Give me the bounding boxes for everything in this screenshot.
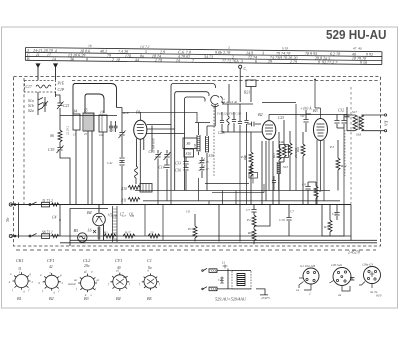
M1 coil in box	[36, 85, 51, 88]
svg-text:C21: C21	[63, 104, 69, 108]
svg-text:529 HU-AU: 529 HU-AU	[326, 28, 387, 42]
socket B1	[13, 272, 31, 290]
svg-text:R14: R14	[340, 164, 347, 168]
svg-text:C1: C1	[147, 258, 152, 263]
wires tube B2 grid area	[222, 122, 262, 132]
svg-text:23: 23	[150, 231, 154, 235]
svg-text:S18: S18	[356, 133, 361, 137]
svg-text:L6: L6	[87, 229, 92, 233]
svg-text:B3: B3	[313, 108, 318, 113]
C33 C36 caps	[183, 157, 188, 191]
top mid text rows	[216, 100, 241, 116]
svg-text:C14: C14	[159, 166, 165, 170]
svg-text:2 79: 2 79	[290, 59, 297, 64]
main bus wires	[11, 204, 352, 206]
mid-bottom components row (C7 P2 R6 C10)	[219, 205, 292, 245]
svg-text:B4: B4	[87, 210, 92, 215]
svg-text:6.2 78: 6.2 78	[330, 51, 340, 56]
svg-text:S1b: S1b	[28, 104, 34, 108]
svg-text:9a: 9a	[148, 266, 152, 270]
svg-text:+ (m) A.: + (m) A.	[300, 107, 312, 111]
svg-text:47⁄4F5: 47⁄4F5	[261, 296, 270, 300]
svg-text:B1: B1	[17, 296, 22, 301]
svg-text:C33: C33	[175, 162, 181, 166]
svg-text:2 18: 2 18	[112, 57, 120, 62]
svg-text:S9: S9	[187, 142, 191, 146]
svg-text:R21: R21	[243, 91, 250, 95]
svg-text:R11: R11	[120, 199, 127, 203]
svg-text:C32: C32	[338, 109, 344, 113]
svg-text:77.72.76A 3: 77.72.76A 3	[222, 58, 243, 63]
svg-text:S10: S10	[186, 152, 192, 156]
svg-text:9 50: 9 50	[360, 60, 367, 65]
svg-text:29a: 29a	[84, 264, 90, 268]
antenna switch column	[28, 99, 34, 113]
svg-text:S6: S6	[50, 134, 54, 138]
second dashed top line	[72, 79, 380, 81]
svg-text:S1a: S1a	[28, 99, 34, 103]
svg-text:22 20 2: 22 20 2	[66, 126, 70, 136]
svg-text:B2: B2	[258, 112, 263, 117]
socket B5	[142, 273, 159, 290]
svg-text:R7: R7	[318, 189, 323, 193]
svg-text:11: 11	[36, 52, 40, 57]
svg-text:14: 14	[176, 58, 180, 63]
svg-text:42: 42	[49, 265, 53, 269]
svg-text:34.73: 34.73	[204, 54, 213, 59]
C14 cap	[164, 162, 169, 191]
svg-text:I1B: I1B	[111, 214, 117, 218]
bandfilter box	[140, 184, 152, 193]
svg-text:170: 170	[125, 53, 131, 58]
svg-text:78: 78	[88, 44, 92, 48]
svg-text:9.6b 2.78: 9.6b 2.78	[215, 50, 230, 55]
C21 cap	[56, 95, 64, 130]
vertical resistor columns under B2/B3	[249, 131, 305, 205]
svg-text:14: 14	[52, 56, 56, 61]
svg-text:1a 4a 1b 4b: 1a 4a 1b 4b	[222, 100, 238, 104]
svg-text:R22: R22	[243, 154, 247, 161]
svg-text:C1P: C1P	[58, 88, 65, 92]
antenna arrow E	[54, 64, 58, 80]
svg-text:g1: g1	[97, 278, 101, 282]
coil S13 below	[277, 162, 284, 191]
svg-text:8 92.77.2 7: 8 92.77.2 7	[318, 59, 338, 64]
svg-text:B4: B4	[116, 296, 121, 301]
socket B4	[110, 273, 129, 291]
svg-text:B2: B2	[49, 296, 54, 301]
svg-text:44: 44	[135, 57, 139, 62]
svg-text:2 79: 2 79	[155, 57, 162, 62]
svg-text:C10: C10	[279, 218, 285, 222]
svg-text:C41: C41	[107, 161, 113, 165]
svg-text:B5: B5	[147, 296, 152, 301]
svg-text:B5: B5	[74, 228, 79, 233]
svg-text:C19: C19	[332, 212, 338, 216]
dial scale strip	[25, 43, 382, 66]
svg-text:S10: S10	[209, 154, 215, 158]
svg-text:R13: R13	[272, 152, 276, 159]
C35 column left of B1	[117, 108, 126, 205]
svg-text:10: 10	[100, 111, 104, 115]
C15 trimmer	[155, 150, 162, 191]
detector caps left of B3	[303, 110, 311, 132]
svg-text:5: 5	[145, 49, 147, 54]
svg-text:C36: C36	[175, 169, 181, 173]
svg-text:8: 8	[86, 57, 88, 62]
inner dashed vertical right	[350, 87, 352, 204]
svg-text:C35: C35	[109, 129, 115, 133]
P2 pot dashed	[344, 130, 346, 176]
socket B2	[43, 273, 61, 291]
svg-text:P2: P2	[246, 218, 251, 222]
L-curved wires to tuning cap	[73, 84, 117, 115]
C9 R7 under output	[305, 182, 318, 205]
svg-text:C8: C8	[130, 214, 134, 218]
resistor on heater line	[148, 234, 160, 238]
svg-text:CF1: CF1	[47, 258, 54, 263]
heater winding	[98, 228, 101, 238]
svg-text:R1: R1	[103, 231, 108, 235]
svg-text:S8 71.1: S8 71.1	[42, 230, 53, 234]
schematic dashed border	[14, 77, 381, 247]
svg-text:P4: P4	[329, 145, 334, 149]
grid cap terminal C	[239, 65, 242, 102]
svg-text:R17: R17	[124, 231, 131, 235]
scale row text smudges	[27, 48, 373, 65]
svg-text:C25: C25	[278, 116, 284, 120]
padder trimmer	[42, 97, 48, 112]
mains transformer	[113, 206, 118, 242]
svg-text:C6: C6	[186, 210, 190, 214]
svg-text:S17: S17	[352, 110, 357, 114]
svg-text:47 40: 47 40	[353, 46, 362, 50]
svg-text:PC: PC	[187, 227, 193, 231]
svg-text:P1E: P1E	[57, 82, 65, 86]
svg-text:2-45278: 2-45278	[348, 251, 360, 255]
socket B3	[78, 274, 97, 293]
IF boxes S9/S10	[183, 138, 197, 157]
svg-text:metall: metall	[68, 282, 76, 286]
svg-text:79: 79	[107, 53, 111, 58]
svg-text:25: 25	[84, 132, 88, 136]
labels near 157-215 left	[111, 210, 294, 219]
B1 pin drops	[137, 125, 185, 191]
right connector circle 1	[299, 268, 319, 290]
svg-text:W8 W30: W8 W30	[152, 138, 156, 149]
left terminal row y=204	[9, 202, 58, 236]
svg-text:9 18: 9 18	[282, 46, 288, 50]
wires to tuning cap C	[171, 84, 215, 191]
svg-text:C₁: C₁	[244, 67, 249, 71]
svg-text:CK1: CK1	[16, 258, 24, 263]
right connector circle 2	[330, 268, 355, 292]
svg-text:C17: C17	[26, 85, 33, 89]
svg-text:R17: R17	[323, 225, 330, 229]
svg-text:S2a: S2a	[28, 109, 34, 113]
svg-text:9⁄10: 9⁄10	[376, 294, 382, 298]
svg-text:EA: EA	[384, 120, 389, 127]
chassis wiring figure	[202, 265, 268, 295]
extra vertical drops middle	[145, 178, 247, 240]
svg-text:128 G2a: 128 G2a	[331, 263, 342, 267]
svg-text:9 92: 9 92	[366, 52, 373, 57]
svg-text:C7: C7	[122, 214, 126, 218]
svg-text:Ne: Ne	[5, 217, 10, 223]
svg-text:CY1: CY1	[115, 258, 122, 263]
svg-text:29: 29	[268, 59, 272, 64]
svg-text:2a: 2a	[338, 293, 342, 297]
small resistors on 236 bus	[104, 234, 116, 238]
svg-text:C4: C4	[52, 216, 57, 220]
svg-text:R15: R15	[283, 146, 287, 153]
power supply outline	[70, 209, 108, 247]
svg-text:R10: R10	[120, 187, 127, 191]
svg-text:1.6 7.2: 1.6 7.2	[140, 45, 150, 49]
svg-text:C8: C8	[250, 174, 254, 178]
svg-text:a2: a2	[123, 275, 127, 279]
svg-text:128a G3: 128a G3	[362, 263, 373, 267]
svg-text:R1b: R1b	[122, 111, 129, 115]
svg-text:G1 102.128: G1 102.128	[300, 264, 315, 268]
antenna arrow A	[36, 64, 40, 80]
gang coupling dashed	[213, 107, 215, 176]
output transformer primary	[344, 107, 386, 132]
svg-text:S4: S4	[74, 110, 78, 114]
PC resistor right mid	[193, 214, 197, 242]
svg-text:C7: C7	[290, 210, 294, 214]
tuning capacitor C rotor	[211, 95, 224, 126]
RF section bus	[60, 115, 117, 117]
svg-text:C7: C7	[246, 208, 250, 212]
svg-text:31: 31	[18, 267, 22, 271]
vertical drops from boxes to bus	[76, 130, 103, 205]
left terminal row y=236	[9, 234, 58, 239]
svg-text:C15: C15	[149, 150, 155, 154]
svg-text:F1B 22a F1B C1B: F1B 22a F1B C1B	[216, 112, 241, 116]
right connector circle 3	[359, 267, 381, 289]
svg-text:3: 3	[262, 50, 264, 55]
second dashed chassis line	[16, 249, 376, 251]
svg-text:S13: S13	[283, 165, 288, 169]
svg-text:40: 40	[117, 266, 121, 270]
svg-text:31 71.2: 31 71.2	[42, 199, 53, 203]
svg-text:CL2: CL2	[83, 258, 90, 263]
IF can boxed coil I4P	[280, 120, 289, 162]
svg-text:C19: C19	[48, 148, 54, 152]
svg-text:C9: C9	[302, 183, 306, 187]
svg-text:8a: 8a	[140, 53, 144, 58]
svg-text:L1: L1	[221, 261, 226, 265]
caps beside boxes	[109, 121, 118, 132]
trimmers right	[199, 157, 206, 178]
svg-text:C4: C4	[218, 278, 222, 282]
RF coil boxes row	[73, 113, 107, 132]
AVC branch lines	[205, 132, 276, 205]
switch blades	[38, 92, 56, 115]
C20 box + R21	[246, 80, 256, 87]
svg-text:R6: R6	[247, 231, 252, 235]
cathode coil below B1	[135, 166, 138, 178]
antenna coupling dashed box	[25, 81, 56, 93]
svg-text:1a: 1a	[296, 288, 300, 292]
trimmer 2	[164, 150, 171, 162]
svg-text:B3: B3	[84, 296, 89, 301]
mid column coils/caps	[220, 104, 249, 132]
svg-text:g2: g2	[84, 270, 88, 274]
inner dashed vertical	[23, 78, 25, 204]
svg-text:S.M: S.M	[193, 144, 197, 149]
bottom right box	[322, 205, 344, 237]
svg-text:529.AU=529/4AU: 529.AU=529/4AU	[215, 297, 247, 302]
svg-text:R16: R16	[296, 146, 300, 153]
oscillator coils (ladder style)	[195, 123, 216, 191]
